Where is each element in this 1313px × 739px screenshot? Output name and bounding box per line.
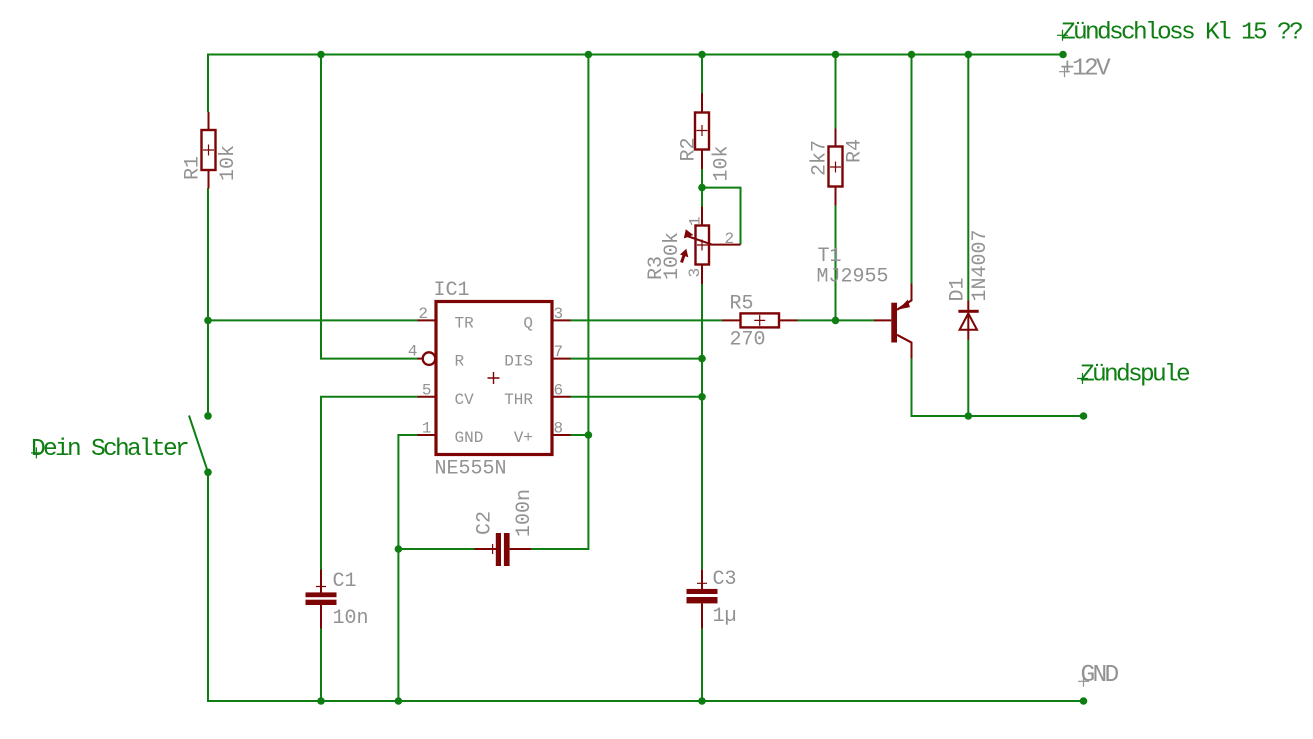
svg-text:2: 2	[418, 305, 428, 323]
node top rail x968	[965, 51, 973, 59]
node top rail x911	[908, 51, 916, 59]
wire V+ row pin8	[570, 434, 589, 436]
svg-text:MJ2955: MJ2955	[817, 266, 889, 289]
resistor R2	[678, 93, 734, 182]
diode D1 1N4007	[947, 229, 993, 339]
node TR row x208	[204, 317, 212, 325]
node C2 branch	[395, 545, 403, 553]
pin 7 DIS stub	[552, 358, 571, 360]
resistor R5	[722, 293, 798, 352]
svg-text:CV: CV	[455, 391, 475, 409]
wire C2 left branch	[398, 548, 495, 550]
wire R5 to T1 base	[797, 319, 874, 321]
svg-text:D1: D1	[947, 277, 970, 301]
svg-text:TR: TR	[455, 314, 475, 332]
svg-text:R4: R4	[844, 139, 867, 163]
svg-text:3: 3	[686, 268, 704, 278]
transistor T1 MJ2955 (PNP)	[817, 245, 913, 359]
svg-text:10k: 10k	[217, 145, 240, 181]
svg-text:1µ: 1µ	[713, 605, 737, 628]
wire T1 emitter to top rail	[911, 54, 913, 284]
svg-text:R: R	[455, 353, 465, 371]
pin 5 CV stub	[418, 396, 437, 398]
wire GND pin1 to bottom rail	[398, 435, 418, 701]
wire DIS row	[570, 358, 702, 360]
resistor R4	[809, 129, 867, 206]
wire C2 right to V+ vertical	[531, 55, 588, 550]
svg-text:GND: GND	[1081, 662, 1119, 689]
node top rail x321	[317, 51, 325, 59]
svg-text:THR: THR	[504, 391, 533, 409]
wire vertical x=321 top rail to R row	[321, 55, 418, 359]
node +12V endpoint	[1059, 51, 1067, 59]
wire T1 collector to Zuendspule rail	[912, 358, 1084, 416]
wire C1 bottom to GND rail	[320, 628, 322, 701]
svg-text:IC1: IC1	[434, 279, 470, 302]
node R4-R5 junction	[832, 317, 840, 325]
wire left rail upper (to R1)	[207, 54, 209, 113]
svg-text:Q: Q	[523, 314, 533, 332]
wire left rail middle (R1 to switch)	[207, 188, 209, 416]
node V+ junction	[585, 431, 593, 439]
svg-text:NE555N: NE555N	[435, 458, 507, 481]
svg-text:100n: 100n	[513, 489, 536, 537]
svg-text:8: 8	[554, 419, 564, 437]
pin 2 TR stub	[418, 319, 437, 321]
pin 8 V+ stub	[552, 434, 571, 436]
wire x=835.5 top rail to R4	[835, 54, 837, 129]
IC op-amp-style box IC1 NE555N	[408, 279, 571, 481]
svg-text:270: 270	[730, 329, 766, 352]
svg-text:Zündspule: Zündspule	[1080, 362, 1190, 389]
svg-text:7: 7	[554, 343, 564, 361]
R3 adjust arrow	[682, 253, 686, 263]
pin 6 THR stub	[552, 396, 571, 398]
R3 wiper arm	[687, 236, 712, 245]
net label GND	[1078, 662, 1119, 689]
capacitor C2	[474, 489, 537, 566]
emitter arrow (PNP)	[898, 300, 910, 310]
capacitor C1	[306, 570, 369, 631]
wire CV row to C1 branch	[321, 397, 418, 570]
wire Q row to R5	[570, 319, 722, 321]
node DIS junction	[698, 355, 706, 363]
svg-text:6: 6	[554, 381, 564, 399]
pin 3 Q stub	[552, 319, 571, 321]
switch blade (open)	[189, 416, 208, 473]
node switch bottom contact	[204, 469, 212, 477]
svg-text:R2: R2	[678, 137, 701, 161]
node bottom rail x702	[698, 697, 706, 705]
node top rail x702	[698, 51, 706, 59]
wire R2/R3 node loop to wiper	[702, 188, 741, 245]
wire bottom GND rail	[207, 700, 1084, 702]
node D1-collector junction	[965, 412, 973, 420]
wire R3 pin3 down to DIS/THR/C3	[701, 284, 703, 570]
wire TR row (node to pin 2)	[208, 319, 418, 321]
svg-text:V+: V+	[514, 429, 533, 447]
net label Dein Schalter	[31, 436, 188, 463]
resistor R1	[182, 112, 241, 189]
wire THR row	[570, 396, 702, 398]
wire x=702 top rail to R2	[701, 54, 703, 94]
capacitor C3	[687, 568, 737, 629]
svg-text:+12V: +12V	[1060, 56, 1111, 83]
wire R2 to R3	[701, 169, 703, 207]
svg-text:DIS: DIS	[504, 353, 533, 371]
svg-text:C1: C1	[333, 570, 357, 593]
svg-text:C2: C2	[474, 511, 497, 535]
node switch top contact	[204, 412, 212, 420]
svg-text:2: 2	[725, 230, 735, 248]
net label Zuendspule	[1077, 362, 1190, 389]
node GND endpoint	[1080, 697, 1088, 705]
svg-text:4: 4	[408, 343, 418, 361]
wire top +12V rail	[207, 54, 1063, 56]
svg-text:1: 1	[687, 216, 705, 226]
node top rail x588	[585, 51, 593, 59]
net label Zuendschloss Kl 15 ??	[1057, 20, 1302, 47]
svg-text:3: 3	[554, 305, 564, 323]
svg-text:R1: R1	[182, 156, 205, 180]
IC1 origin cross	[488, 372, 500, 384]
wire D1 bottom to Zuendspule rail	[967, 340, 969, 416]
svg-text:1: 1	[422, 419, 432, 437]
svg-text:100k: 100k	[661, 232, 684, 280]
pin 1 GND stub	[418, 434, 437, 436]
node THR junction	[698, 393, 706, 401]
wire D1 top rail to diode	[967, 54, 969, 301]
emitter line	[897, 300, 912, 310]
svg-text:Zündschloss Kl 15 ??: Zündschloss Kl 15 ??	[1061, 20, 1302, 47]
collector line	[897, 335, 912, 343]
node R2-R3 junction	[698, 184, 706, 192]
node bottom rail x398	[395, 697, 403, 705]
wire left rail lower (switch to bottom)	[207, 472, 209, 702]
node bottom rail x321	[317, 697, 325, 705]
node Zuendspule endpoint	[1080, 412, 1088, 420]
svg-text:R5: R5	[730, 293, 754, 316]
svg-text:10k: 10k	[711, 145, 734, 181]
potentiometer R3	[645, 207, 741, 285]
svg-text:5: 5	[422, 381, 432, 399]
svg-text:2k7: 2k7	[809, 140, 832, 176]
pin 4 R stub with bubble	[418, 358, 423, 360]
net label +12V	[1059, 56, 1111, 83]
node top rail x835	[832, 51, 840, 59]
wire R4 bottom to Q row node	[835, 205, 837, 320]
svg-text:1N4007: 1N4007	[969, 229, 992, 301]
svg-text:Dein Schalter: Dein Schalter	[31, 436, 188, 463]
svg-text:10n: 10n	[333, 607, 369, 630]
svg-text:GND: GND	[455, 429, 484, 447]
svg-text:C3: C3	[713, 568, 737, 591]
wire C3 bottom to rail	[701, 628, 703, 701]
